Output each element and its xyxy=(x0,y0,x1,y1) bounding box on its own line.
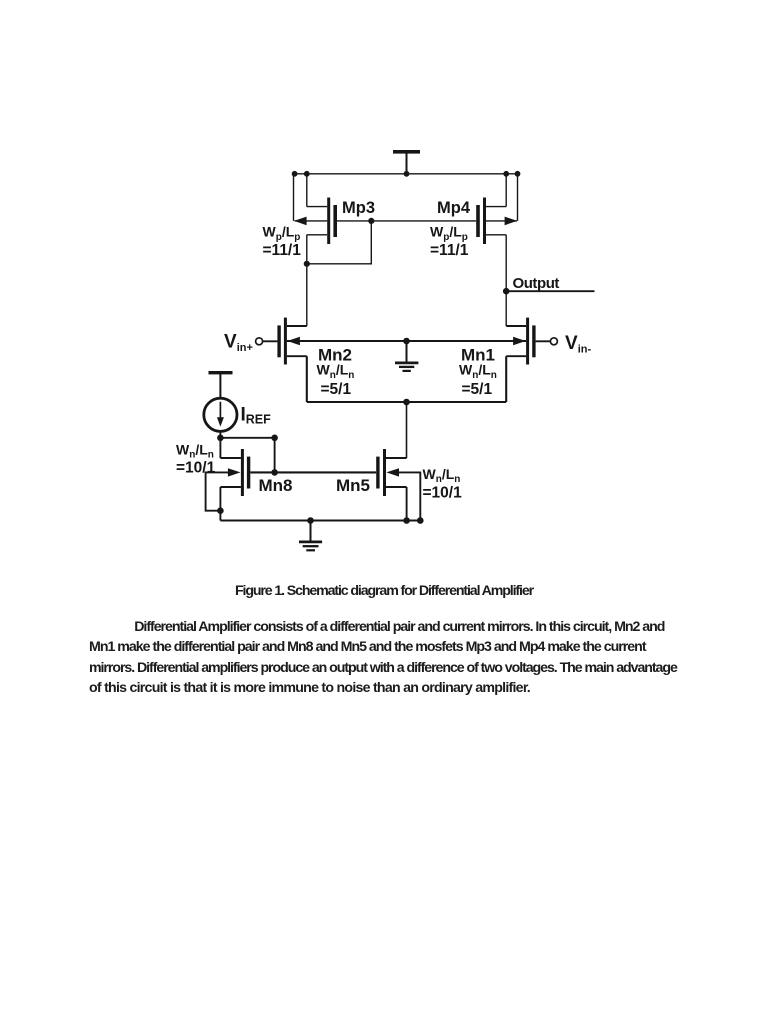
node Mp3 drain junction xyxy=(304,261,310,267)
node gate drop top xyxy=(271,435,278,442)
svg-text:Mn8: Mn8 xyxy=(259,476,293,495)
wire bottom rail xyxy=(220,519,420,521)
figure caption xyxy=(0,584,768,600)
current source IREF xyxy=(204,398,237,431)
wire IREF to gate drop xyxy=(220,437,274,439)
transistor Mn8 xyxy=(220,449,250,496)
body paragraph line 1 xyxy=(134,620,664,636)
node bottom ground tap xyxy=(307,517,314,524)
wire Mp4 drain vertical to output xyxy=(505,235,507,326)
svg-text:Wp/Lp: Wp/Lp xyxy=(263,224,301,243)
wire Mp3 drain vertical xyxy=(306,235,308,326)
svg-text:=10/1: =10/1 xyxy=(423,484,463,501)
svg-text:=11/1: =11/1 xyxy=(263,242,302,259)
wire Mn8 source vertical xyxy=(219,487,221,521)
wire gate bus Mp3-Mp4 xyxy=(337,220,476,222)
wire Output line xyxy=(506,290,594,292)
wire center to Mn1 bulk xyxy=(407,340,527,342)
node rail-center xyxy=(404,171,410,177)
svg-text:=5/1: =5/1 xyxy=(462,381,493,398)
node Mn8 gate tap xyxy=(271,469,278,476)
wire Mp3 source drop (outer left) xyxy=(293,174,295,221)
node center bulk tap xyxy=(403,338,410,345)
node Mn8 bulk-source junction xyxy=(217,507,224,514)
node Mp3 gate tap xyxy=(368,218,374,224)
wire Mp4 source drop (outer right) xyxy=(517,174,519,221)
wire Mp4 top-stub drop (inner right) xyxy=(505,174,507,207)
svg-text:Wn/Ln: Wn/Ln xyxy=(176,442,214,461)
ground center xyxy=(395,341,418,371)
node tail tap xyxy=(403,399,410,406)
wire Mp3 top-stub drop (inner left) xyxy=(306,174,308,207)
svg-text:Vin-: Vin- xyxy=(565,333,591,355)
VDD power symbol IREF branch xyxy=(209,371,233,398)
wire Mn1 gate to Vin- xyxy=(536,340,551,342)
svg-text:Mp3: Mp3 xyxy=(342,199,375,217)
wire top supply rail xyxy=(294,173,518,175)
node Output xyxy=(503,288,510,295)
wire Mn2 source vertical xyxy=(306,356,308,402)
svg-text:Wn/Ln: Wn/Ln xyxy=(423,466,461,485)
node rail-right-inner xyxy=(503,171,509,177)
body paragraph line 3 xyxy=(89,661,677,677)
wire IREF bottom xyxy=(219,431,221,437)
svg-text:=10/1: =10/1 xyxy=(176,460,216,477)
wire Mn8 bulk loop xyxy=(206,472,229,510)
wire common source line xyxy=(307,401,506,403)
wire gate drop vertical xyxy=(274,438,276,473)
node rail-left-inner xyxy=(304,171,310,177)
wire Mn8 drain vertical xyxy=(219,438,221,458)
svg-text:=11/1: =11/1 xyxy=(430,242,469,259)
transistor Mn5 xyxy=(376,449,406,496)
svg-text:Vin+: Vin+ xyxy=(224,332,253,354)
wire tail vertical to Mn5 drain xyxy=(406,402,408,458)
VDD power symbol top xyxy=(393,150,420,174)
node rail-right-outer xyxy=(515,171,521,177)
wire Mn1 source vertical xyxy=(505,356,507,402)
node IREF out xyxy=(217,435,224,442)
svg-text:IREF: IREF xyxy=(241,405,272,427)
input terminal Vin- xyxy=(550,338,557,345)
body paragraph line 2 xyxy=(89,640,646,656)
input terminal Vin+ xyxy=(256,338,263,345)
node bottom rail Mn5 source xyxy=(403,517,410,524)
wire gate bus Mn8-Mn5 xyxy=(250,471,376,473)
svg-text:Mp4: Mp4 xyxy=(437,199,471,217)
transistor Mn1 xyxy=(506,318,535,365)
svg-text:Output: Output xyxy=(513,275,560,292)
transistor Mp3 xyxy=(294,198,337,245)
svg-text:Mn5: Mn5 xyxy=(336,476,370,495)
wire Mp3 diode connection xyxy=(307,221,372,264)
svg-text:=5/1: =5/1 xyxy=(321,381,352,398)
svg-text:Wp/Lp: Wp/Lp xyxy=(430,224,468,243)
transistor Mn2 xyxy=(277,318,306,365)
transistor Mp4 xyxy=(476,198,517,245)
node bottom rail Mn5 bulk xyxy=(417,517,424,524)
wire Mn5 source vertical xyxy=(406,487,408,521)
ground bottom xyxy=(299,521,322,551)
node rail-left-outer xyxy=(292,171,298,177)
wire Mn5 bulk loop xyxy=(399,472,421,520)
wire Mn2 bulk to center xyxy=(287,340,407,342)
body paragraph line 4 xyxy=(89,681,530,697)
wire Vin+ to Mn2 gate xyxy=(263,340,278,342)
